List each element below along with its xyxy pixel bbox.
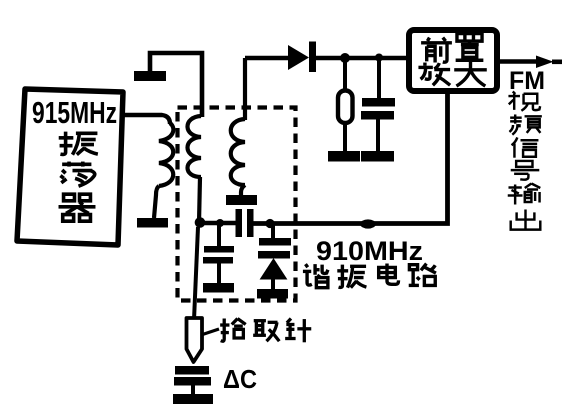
label 置 xyxy=(456,34,484,61)
label 电 xyxy=(379,264,399,285)
label 号 xyxy=(511,161,540,180)
wire L2 bottom to node A xyxy=(199,177,200,223)
varactor VD plates xyxy=(258,238,291,259)
ground below C1 xyxy=(203,283,234,293)
capacitor C3 plates xyxy=(361,98,395,120)
label 振 (oscillator char 1) xyxy=(59,132,98,155)
box 915MHz oscillator xyxy=(17,89,123,245)
diode VD2 xyxy=(288,42,316,73)
wire preamp output xyxy=(497,59,537,63)
inductor L3 top lead xyxy=(243,58,247,120)
label 针 xyxy=(285,319,311,343)
label 荡 (oscillator char 2) xyxy=(60,162,94,187)
pointer line to needle label xyxy=(201,329,219,335)
node C junction (varactor tap) xyxy=(265,219,274,228)
svg-text:915MHz: 915MHz xyxy=(32,95,117,130)
wire diode to preamp input xyxy=(315,56,407,61)
ground below L1 xyxy=(137,218,168,228)
resistor R1 bottom lead xyxy=(343,123,347,152)
node F junction (cap tap) xyxy=(375,54,383,62)
capacitor C3 top lead xyxy=(377,58,381,99)
inductor L1 xyxy=(159,123,173,186)
wire top ground to L2 top xyxy=(150,53,202,117)
wire L3 to ground xyxy=(241,185,245,196)
ground below deltaC xyxy=(173,394,213,404)
ground below C3 xyxy=(361,151,394,162)
label 拾 xyxy=(220,319,246,342)
label 放 xyxy=(418,63,450,86)
label 大 xyxy=(454,62,487,86)
pickup needle body xyxy=(187,318,203,362)
capacitor deltaC lead xyxy=(191,385,195,394)
varactor VD bottom lead xyxy=(271,279,275,289)
output stub xyxy=(552,59,562,64)
ground top-left xyxy=(134,71,166,81)
label deltaC xyxy=(223,364,257,394)
label 频 xyxy=(509,114,541,134)
capacitor C1 plates xyxy=(203,246,234,264)
inductor L3 xyxy=(231,119,245,185)
svg-text:ΔC: ΔC xyxy=(223,364,257,394)
capacitor deltaC plates xyxy=(174,366,211,386)
wire series capacitor to preamp (node C, node D) xyxy=(253,92,448,224)
node A junction xyxy=(195,217,206,228)
label 振 (resonant char 2) xyxy=(337,265,366,288)
label 视 xyxy=(508,91,540,110)
svg-text:FM: FM xyxy=(509,67,545,95)
label 谐 xyxy=(303,264,328,288)
label 出 xyxy=(511,209,541,229)
capacitor C1 bottom lead xyxy=(217,263,221,283)
wire L3 node to diode xyxy=(245,56,290,61)
series capacitor C2 plates xyxy=(236,209,254,237)
inductor L2 xyxy=(188,116,202,177)
label FM xyxy=(509,67,545,95)
capacitor C1 top lead xyxy=(217,223,221,246)
label 信 xyxy=(512,137,539,157)
wire node A to series capacitor xyxy=(199,221,236,226)
label 915MHz xyxy=(32,95,117,130)
label 输 xyxy=(508,184,541,205)
output arrowhead xyxy=(536,56,554,69)
node E junction (resistor tap) xyxy=(340,53,350,63)
dashed box 910MHz resonant circuit xyxy=(178,108,296,301)
node B junction (shunt cap tap) xyxy=(216,219,224,227)
resistor R1 top lead xyxy=(343,58,347,91)
ground below L3 xyxy=(226,195,257,205)
capacitor C3 bottom lead xyxy=(376,119,380,152)
svg-text:910MHz: 910MHz xyxy=(316,236,423,266)
label 路 xyxy=(409,264,436,286)
label 取 xyxy=(253,321,279,342)
ground below varactor xyxy=(257,289,288,299)
box preamp xyxy=(409,30,497,91)
ground below R1 xyxy=(328,151,360,162)
wire L1 to ground xyxy=(154,186,159,218)
wire oscillator output to L1 xyxy=(122,115,170,124)
wire node A down to pickup needle xyxy=(194,227,198,320)
node D junction blob xyxy=(360,219,376,228)
varactor VD lead xyxy=(271,224,275,239)
varactor VD triangle xyxy=(261,259,287,279)
label 前 xyxy=(421,38,452,63)
label 910MHz xyxy=(316,236,423,266)
label 器 (oscillator char 3) xyxy=(59,194,96,221)
resistor R1 body xyxy=(338,91,353,124)
